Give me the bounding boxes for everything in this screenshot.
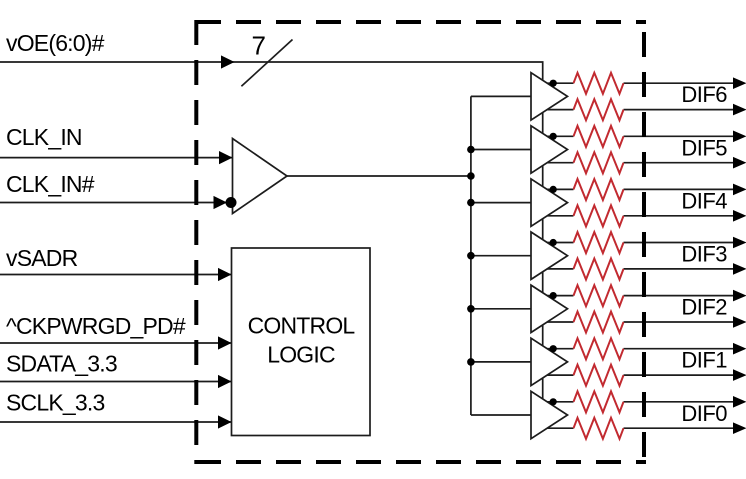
svg-text:vOE(6:0)#: vOE(6:0)# <box>6 30 105 56</box>
wire vSADR <box>0 274 232 276</box>
resistor DIF0 true series <box>574 391 624 412</box>
svg-text:SDATA_3.3: SDATA_3.3 <box>6 351 117 377</box>
svg-text:LOGIC: LOGIC <box>267 342 335 368</box>
svg-text:DIF1: DIF1 <box>681 348 727 373</box>
IC boundary dashed box bottom <box>196 460 646 464</box>
control logic block <box>232 248 371 436</box>
wire CLK_IN <box>0 157 233 159</box>
arrow SCLK_3.3 input <box>218 415 232 428</box>
op-amp output buffer DIF2 <box>531 285 568 332</box>
svg-text:^CKPWRGD_PD#: ^CKPWRGD_PD# <box>6 313 186 339</box>
arrow CLK_IN# input <box>214 196 228 209</box>
op-amp output buffer DIF4 <box>531 179 568 226</box>
op-amp output buffer DIF3 <box>531 232 568 279</box>
arrow CLK_IN input <box>219 151 233 164</box>
arrow DIF6 complement <box>733 104 746 116</box>
resistor DIF5 complement series <box>574 152 624 173</box>
wire SCLK_3.3 <box>0 421 232 423</box>
wire DIF3 true output <box>540 242 733 244</box>
resistor DIF6 complement series <box>574 99 624 120</box>
arrow DIF6 true <box>733 77 746 89</box>
IC boundary dashed box right <box>642 32 646 462</box>
op-amp output buffer DIF0 <box>531 391 568 438</box>
svg-text:DIF6: DIF6 <box>681 82 727 107</box>
svg-text:DIF2: DIF2 <box>681 295 727 320</box>
node junction dot DIF5 <box>550 133 557 140</box>
wire DIF4 true output <box>540 188 733 190</box>
op-amp output buffer DIF5 <box>531 126 568 173</box>
wire DIF5 true output <box>540 135 733 137</box>
arrow DIF2 complement <box>733 316 746 328</box>
IC boundary dashed box top <box>196 20 646 24</box>
resistor DIF6 true series <box>574 73 624 94</box>
resistor DIF3 true series <box>574 232 624 253</box>
arrow SDATA_3.3 input <box>218 375 232 388</box>
arrow vSADR input <box>218 268 232 281</box>
arrow DIF4 complement <box>733 210 746 222</box>
arrow DIF3 true <box>733 237 746 249</box>
resistor DIF4 complement series <box>574 205 624 226</box>
svg-text:DIF4: DIF4 <box>681 188 727 213</box>
wire DIF0 complement output <box>540 427 733 429</box>
svg-text:SCLK_3.3: SCLK_3.3 <box>6 390 104 416</box>
resistor DIF5 true series <box>574 126 624 147</box>
IC boundary dashed box left <box>194 20 198 464</box>
wire ^CKPWRGD_PD# <box>0 342 232 344</box>
wire clock distribution net from input buffer to all output buffers <box>287 96 532 415</box>
resistor DIF3 complement series <box>574 259 624 280</box>
resistor DIF1 complement series <box>574 365 624 386</box>
node junction dot DIF0 <box>550 398 557 405</box>
arrow DIF4 true <box>733 184 746 196</box>
resistor DIF4 true series <box>574 179 624 200</box>
wire DIF5 complement output <box>540 162 733 164</box>
node junction dot DIF6 <box>550 80 557 87</box>
node junction dot DIF4 <box>550 186 557 193</box>
arrow DIF3 complement <box>733 263 746 275</box>
op-amp output buffer DIF1 <box>531 338 568 385</box>
wire CLK_IN# <box>0 202 227 204</box>
wire DIF3 complement output <box>540 268 733 270</box>
wire DIF4 complement output <box>540 215 733 217</box>
resistor DIF2 complement series <box>574 312 624 333</box>
wire DIF1 complement output <box>540 374 733 376</box>
resistor DIF0 complement series <box>574 418 624 439</box>
arrow DIF1 true <box>733 343 746 355</box>
svg-text:DIF3: DIF3 <box>681 242 727 267</box>
arrow DIF5 true <box>733 131 746 143</box>
svg-text:7: 7 <box>252 31 266 61</box>
svg-text:DIF5: DIF5 <box>681 135 727 160</box>
svg-text:CLK_IN#: CLK_IN# <box>6 171 95 197</box>
arrow DIF2 true <box>733 290 746 302</box>
wire DIF6 complement output <box>540 109 733 111</box>
svg-text:DIF0: DIF0 <box>681 401 727 426</box>
arrow DIF0 complement <box>733 422 746 434</box>
bus width 7 slash <box>241 31 292 87</box>
wire DIF2 complement output <box>540 321 733 323</box>
node junction dot DIF1 <box>550 345 557 352</box>
op-amp output buffer DIF6 <box>531 73 568 120</box>
wire DIF6 true output <box>540 82 733 84</box>
wire DIF1 true output <box>540 348 733 350</box>
arrow DIF5 complement <box>733 157 746 169</box>
node junction dot DIF3 <box>550 239 557 246</box>
node clock net junction dots <box>467 146 475 366</box>
svg-text:CONTROL: CONTROL <box>248 312 356 338</box>
arrow ^CKPWRGD_PD# input <box>218 336 232 349</box>
node inverting input dot CLK_IN# <box>226 197 237 208</box>
arrow DIF0 true <box>733 396 746 408</box>
node junction dot DIF2 <box>550 292 557 299</box>
wire DIF2 true output <box>540 295 733 297</box>
arrow vOE input <box>221 55 235 68</box>
op-amp U1 input clock buffer <box>233 139 288 214</box>
resistor DIF2 true series <box>574 285 624 306</box>
svg-text:vSADR: vSADR <box>6 245 78 271</box>
wire SDATA_3.3 <box>0 381 232 383</box>
wire DIF0 true output <box>540 401 733 403</box>
svg-text:CLK_IN: CLK_IN <box>6 124 82 150</box>
resistor DIF1 true series <box>574 338 624 359</box>
wire vOE enable bus: horizontal y=62 then vertical x=542.7 feeding all output buffers <box>0 62 543 406</box>
arrow DIF1 complement <box>733 369 746 381</box>
